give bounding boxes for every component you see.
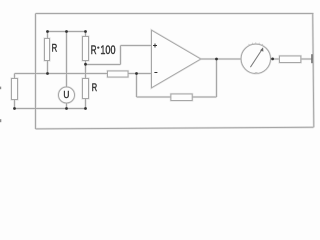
svg-text:R: R (52, 42, 58, 54)
svg-text:U: U (63, 90, 69, 101)
svg-text:R: R (92, 82, 97, 94)
svg-text:100: 100 (100, 43, 115, 57)
svg-text:R: R (91, 43, 97, 57)
